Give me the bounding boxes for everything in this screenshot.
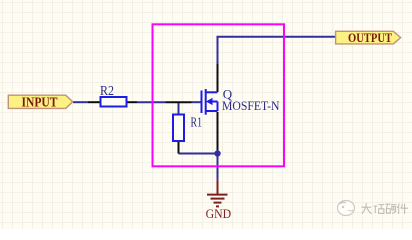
svg-text:GND: GND xyxy=(206,207,232,221)
svg-text:R2: R2 xyxy=(100,83,114,98)
svg-text:OUTPUT: OUTPUT xyxy=(348,31,393,45)
svg-text:R1: R1 xyxy=(191,115,203,130)
svg-text:INPUT: INPUT xyxy=(22,96,59,111)
svg-text:MOSFET-N: MOSFET-N xyxy=(222,99,280,113)
